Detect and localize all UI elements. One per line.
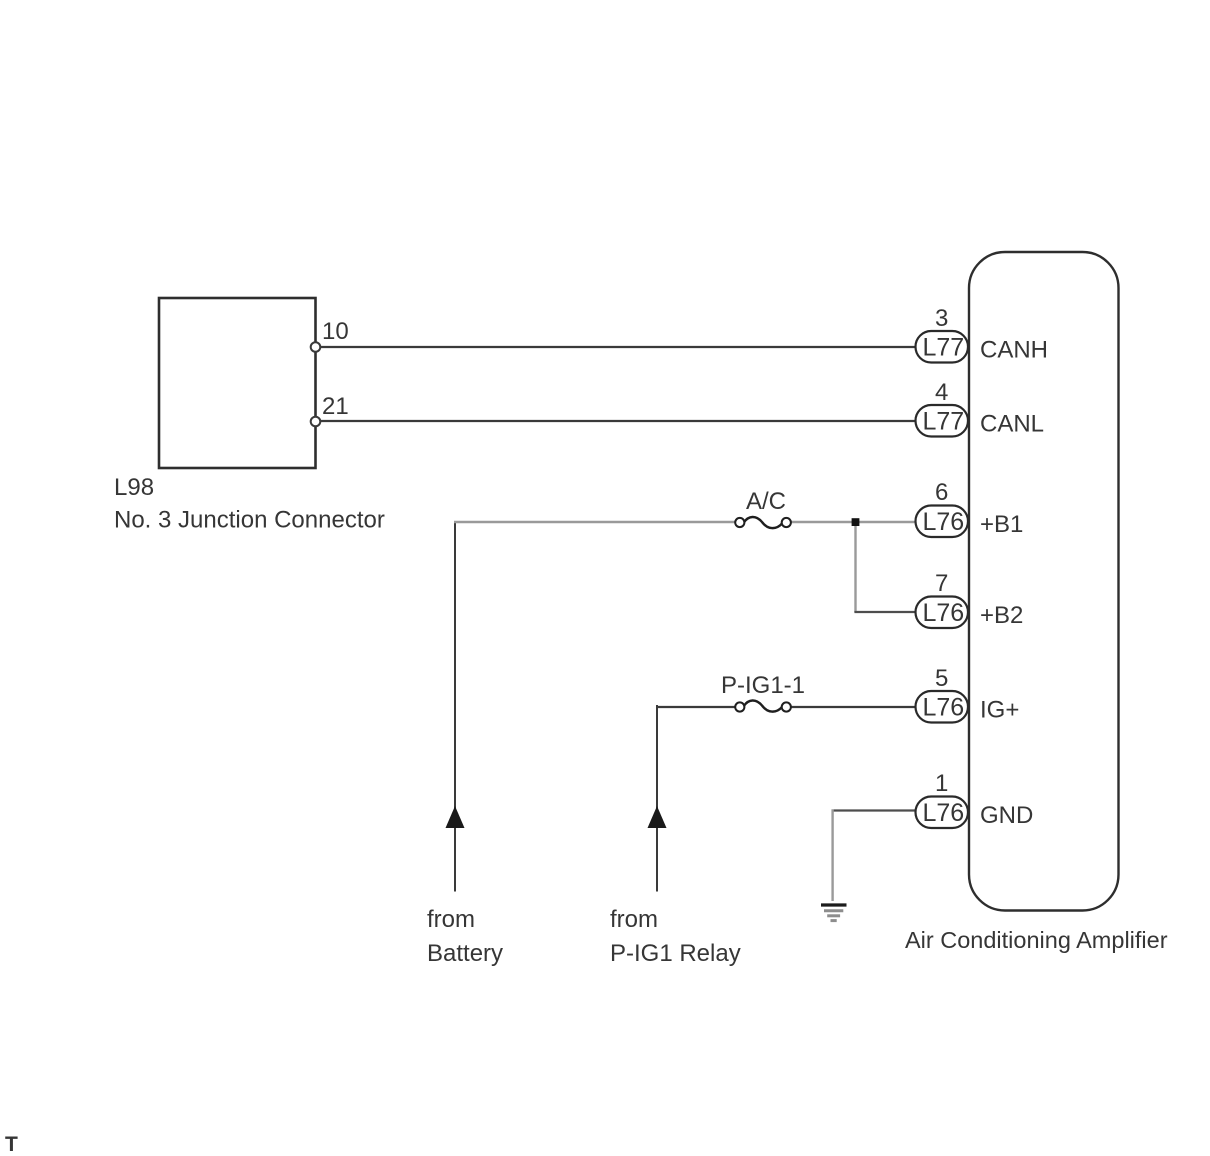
svg-text:L76: L76 <box>923 799 965 827</box>
air conditioning amplifier connector body <box>969 252 1119 911</box>
fuse P-IG1-1 <box>735 700 791 711</box>
wire GND horizontal <box>832 809 917 811</box>
wire CANL <box>319 420 916 422</box>
svg-text:4: 4 <box>935 379 948 406</box>
svg-text:No. 3 Junction Connector: No. 3 Junction Connector <box>114 507 385 534</box>
wire CANH <box>319 346 916 348</box>
svg-text:Air Conditioning Amplifier: Air Conditioning Amplifier <box>905 927 1168 953</box>
svg-text:P-IG1 Relay: P-IG1 Relay <box>610 940 741 967</box>
svg-text:CANH: CANH <box>980 337 1048 364</box>
wire from battery vertical <box>454 521 456 892</box>
svg-text:21: 21 <box>322 393 349 420</box>
svg-text:5: 5 <box>935 665 948 692</box>
svg-text:L77: L77 <box>923 408 965 436</box>
svg-text:L76: L76 <box>923 694 965 722</box>
svg-text:L76: L76 <box>923 599 965 627</box>
junction node dot <box>852 518 860 526</box>
svg-text:3: 3 <box>935 305 948 332</box>
pin 5 connector oval L76 <box>916 691 969 723</box>
svg-text:6: 6 <box>935 479 948 506</box>
pin 1 connector oval L76 <box>916 797 969 829</box>
wire A/C fuse to junction to +B1 (gray) <box>791 521 916 523</box>
svg-text:CANL: CANL <box>980 411 1044 438</box>
pin 6 connector oval L76 <box>916 506 969 538</box>
pin 7 connector oval L76 <box>916 597 969 629</box>
svg-text:10: 10 <box>322 318 349 345</box>
pin 10 terminal circle <box>311 342 321 352</box>
svg-text:A/C: A/C <box>746 488 786 515</box>
pin 3 connector oval L77 <box>916 331 969 363</box>
svg-text:T: T <box>5 1133 18 1156</box>
fuse A/C <box>735 517 791 528</box>
svg-text:L76: L76 <box>923 508 965 536</box>
svg-text:1: 1 <box>935 770 948 797</box>
junction connector L98 box <box>159 298 316 468</box>
wire fuse to IG+ pin <box>791 706 916 708</box>
svg-text:+B2: +B2 <box>980 602 1023 629</box>
svg-text:L77: L77 <box>923 334 965 362</box>
wire GND vertical (gray) <box>831 810 833 902</box>
wire from P-IG1 relay vertical <box>656 705 658 892</box>
svg-text:GND: GND <box>980 802 1033 829</box>
arrowhead from battery <box>446 806 465 828</box>
ground symbol <box>821 905 847 921</box>
svg-text:7: 7 <box>935 570 948 597</box>
pin 21 terminal circle <box>311 417 321 427</box>
svg-text:from: from <box>427 906 475 933</box>
svg-text:from: from <box>610 906 658 933</box>
svg-text:L98: L98 <box>114 474 154 501</box>
pin 4 connector oval L77 <box>916 405 969 437</box>
wire battery to A/C fuse (gray) <box>454 521 735 523</box>
wire junction down to +B2 row (gray) <box>854 522 856 612</box>
svg-text:+B1: +B1 <box>980 511 1023 538</box>
svg-text:P-IG1-1: P-IG1-1 <box>721 672 805 699</box>
wire P-IG1 to fuse <box>656 706 735 708</box>
svg-text:Battery: Battery <box>427 940 503 967</box>
svg-text:IG+: IG+ <box>980 697 1019 724</box>
wire to +B2 pin <box>854 611 916 613</box>
arrowhead from P-IG1 relay <box>648 806 667 828</box>
